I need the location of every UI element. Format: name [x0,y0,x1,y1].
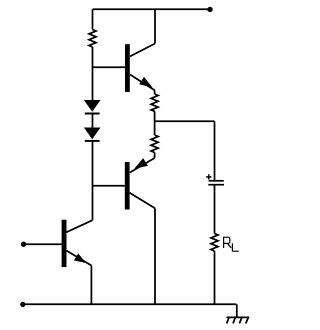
transistor Q3 [125,158,155,210]
wire: capacitor to RL [214,185,216,234]
wire: Q3 collector to bottom rail [154,208,156,304]
resistor R3 [151,135,158,153]
diode D1 [84,100,101,114]
wire: bottom rail [23,303,237,305]
terminal dot input [21,242,26,247]
label RL [224,237,239,252]
ground [227,317,250,323]
terminal dot bottom left [20,302,25,307]
transistor Q2 [125,44,155,93]
wire: output node down to R3 [154,121,156,135]
wire: Q2 emitter stub [154,90,156,94]
wire: R3 to Q3 emitter stub [154,153,156,159]
resistor R2 [151,94,158,111]
wire: R1 to diode D1 [92,47,94,100]
capacitor C1 top plate [209,180,224,182]
resistor R1 [89,30,96,48]
terminal dot V+ [207,7,212,12]
wire: Q3 base branch [93,185,125,187]
transistor Q1 [62,220,93,267]
wire: capacitor branch vertical [214,121,216,180]
resistor RL [211,234,218,252]
wire: R2 to output node [154,111,156,121]
wire: D2 down to Q1 collector [92,141,94,220]
wire: Q2 collector to rail [154,9,156,43]
wire: Q1 emitter to bottom rail [90,266,92,305]
diode D2 [84,128,101,141]
wire: RL to bottom rail [214,251,216,304]
wire: output node to capacitor branch [155,120,215,122]
capacitor C1 bottom plate [208,184,224,186]
wire: input to Q1 base [24,243,62,245]
wire: Q2 base branch [93,66,126,68]
wire: rail drop to ground [236,304,238,317]
wire: rail down to R1 [92,9,94,29]
wire: top supply rail [93,8,211,10]
plus polarity mark [206,174,211,179]
wire: D1 to D2 [92,114,94,128]
